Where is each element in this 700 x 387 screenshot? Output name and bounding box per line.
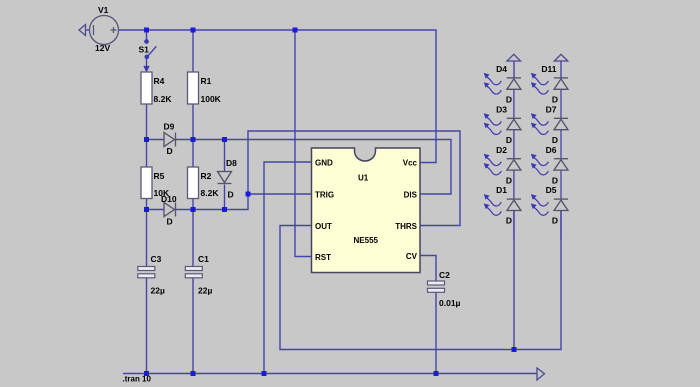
svg-text:GND: GND (315, 159, 333, 168)
node junction OUT rail / left LED string (512, 347, 517, 352)
capacitor C2 (428, 281, 445, 285)
LED D7 (531, 104, 568, 158)
svg-text:DIS: DIS (404, 191, 418, 200)
wire D9 row to DIS (176, 140, 452, 195)
svg-text:R4: R4 (154, 76, 165, 86)
wire R1 column (192, 30, 194, 72)
wire R4 bottom to D9 row (146, 104, 148, 140)
wire D8 bottom (224, 185, 226, 210)
svg-text:D: D (552, 175, 558, 185)
svg-text:C3: C3 (151, 254, 162, 264)
svg-text:22µ: 22µ (198, 286, 212, 296)
svg-text:S1: S1 (139, 45, 150, 55)
node junction D9 row / R4-R5 (144, 137, 149, 142)
LED D1 (484, 185, 521, 239)
resistor R4 (141, 72, 152, 104)
wire TRIG to pin (248, 193, 312, 195)
voltage source V1 (90, 16, 119, 45)
svg-text:100K: 100K (201, 94, 222, 104)
wire C1 column bottom (192, 278, 194, 374)
svg-text:D: D (506, 175, 512, 185)
node junction top rail / S1 (144, 28, 149, 33)
wire TRIG riser to THRS loop (248, 131, 460, 226)
wire D10 row to TRIG riser (176, 194, 249, 210)
node junction D10 row / D8 bottom (222, 207, 227, 212)
node junction top rail / R1 (191, 28, 196, 33)
svg-text:D: D (506, 216, 512, 226)
resistor R2 (188, 167, 199, 199)
svg-text:D7: D7 (546, 104, 557, 114)
wire R5 bottom (146, 199, 148, 210)
wire C2 bottom (435, 292, 437, 374)
LED D2 (484, 145, 521, 199)
svg-text:Vcc: Vcc (403, 159, 418, 168)
LED D5 (531, 185, 568, 239)
svg-text:D: D (167, 146, 173, 156)
ground flag at V1 (79, 25, 86, 36)
wire D8 top (224, 140, 226, 172)
op-amp U1 NE555 body (312, 148, 421, 273)
capacitor C1 (185, 267, 202, 271)
wire R2 top (192, 140, 194, 168)
wire CV pin to C2 (420, 256, 436, 282)
capacitor C3 (138, 267, 155, 271)
svg-text:U1: U1 (358, 174, 369, 183)
svg-text:R2: R2 (201, 171, 212, 181)
node junction ground rail / C3 (144, 371, 149, 376)
wire left LED string bottom (513, 210, 515, 350)
LED D11 (531, 64, 568, 118)
svg-text:D: D (552, 135, 558, 145)
svg-text:D1: D1 (496, 185, 507, 195)
LED D3 (484, 104, 521, 158)
node junction top rail / RST riser (293, 28, 298, 33)
diode D8 (218, 172, 232, 184)
diode D9 (164, 133, 176, 147)
svg-text:D8: D8 (226, 158, 237, 168)
node junction ground rail / GND drop (262, 371, 267, 376)
wire R5 top (146, 140, 148, 168)
switch S1 (144, 40, 156, 71)
svg-text:0.01µ: 0.01µ (439, 298, 461, 308)
ground flag rail end (537, 368, 545, 380)
svg-text:D: D (552, 95, 558, 105)
node junction D9 row / R1-R2 (191, 137, 196, 142)
svg-text:D5: D5 (546, 185, 557, 195)
node junction ground rail / C1 (191, 371, 196, 376)
svg-text:D: D (167, 217, 173, 227)
wire RST pin riser (295, 30, 312, 257)
svg-text:D6: D6 (546, 145, 557, 155)
resistor R5 (141, 167, 152, 199)
node junction D9 row / D8 top (222, 137, 227, 142)
svg-text:RST: RST (315, 253, 331, 262)
node junction D10 row / R2-C1 (191, 207, 196, 212)
LED flag left (507, 54, 521, 61)
diode D10 (164, 203, 176, 217)
svg-text:12V: 12V (95, 43, 110, 53)
svg-text:TRIG: TRIG (315, 191, 334, 200)
svg-text:OUT: OUT (315, 222, 332, 231)
LED flag right (554, 54, 568, 61)
wire OUT pin to LED rail (280, 210, 561, 350)
svg-text:C2: C2 (439, 270, 450, 280)
wire LED right top (560, 61, 562, 78)
svg-text:22µ: 22µ (151, 286, 165, 296)
svg-text:R1: R1 (201, 76, 212, 86)
node junction TRIG (246, 192, 251, 197)
svg-text:D: D (506, 135, 512, 145)
LED D4 (484, 73, 521, 118)
svg-text:R5: R5 (154, 171, 165, 181)
wire R2 bottom (192, 199, 194, 210)
wire C3 column bottom (146, 278, 148, 374)
svg-text:THRS: THRS (395, 222, 417, 231)
wire S1 column top (146, 30, 148, 42)
svg-text:D: D (506, 95, 512, 105)
resistor R1 (188, 72, 199, 104)
svg-text:D10: D10 (161, 194, 177, 204)
wire GND pin to ground rail (264, 162, 312, 374)
wire C1 column top (192, 210, 194, 267)
svg-text:8.2K: 8.2K (154, 94, 173, 104)
wire ground rail (123, 373, 537, 375)
svg-text:CV: CV (406, 252, 418, 261)
wire R1 bottom (192, 104, 194, 140)
svg-text:8.2K: 8.2K (201, 188, 220, 198)
wire top rail main (119, 30, 437, 163)
svg-text:D3: D3 (496, 104, 507, 114)
LED D6 (531, 145, 568, 199)
svg-text:D9: D9 (164, 122, 175, 132)
svg-text:D: D (552, 216, 558, 226)
wire C3 column top (146, 210, 148, 267)
svg-text:D11: D11 (541, 64, 556, 74)
node junction ground rail / C2 (434, 371, 439, 376)
svg-text:NE555: NE555 (354, 236, 379, 245)
svg-text:V1: V1 (98, 5, 109, 15)
node junction D10 row / R5-C3 (144, 207, 149, 212)
svg-text:D2: D2 (496, 145, 507, 155)
wire D9 row left (147, 139, 165, 141)
wire S1 to R4 (146, 57, 148, 69)
wire LED left top (513, 61, 515, 78)
svg-text:C1: C1 (198, 254, 209, 264)
wire top rail (86, 29, 90, 31)
svg-text:D: D (228, 190, 234, 200)
wire D10 row left (147, 209, 165, 211)
svg-text:D4: D4 (496, 64, 507, 74)
